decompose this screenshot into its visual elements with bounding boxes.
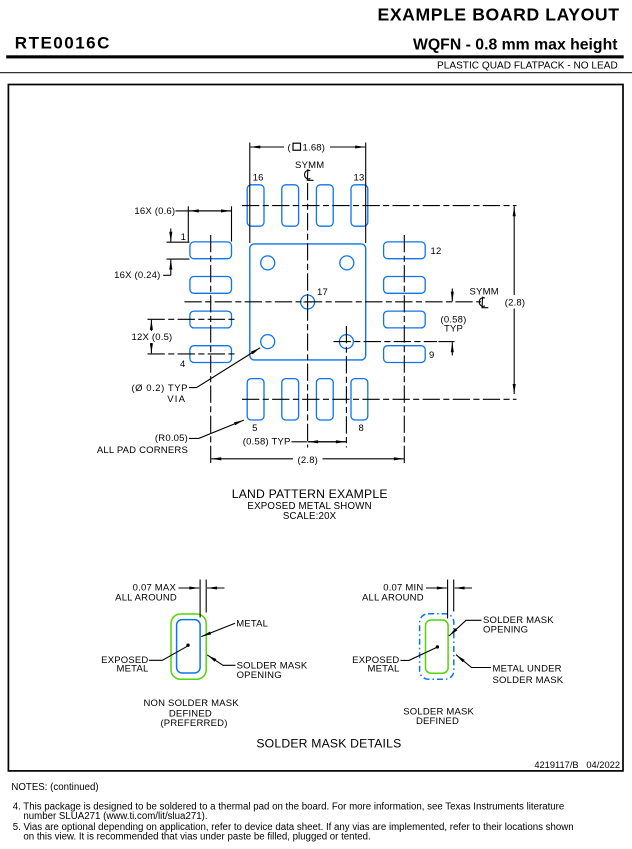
- vertical symm centerline: [307, 183, 309, 448]
- svg-text:METAL: METAL: [117, 663, 149, 674]
- via leader: [189, 348, 260, 388]
- NSMD EXPOSED METAL leader: [149, 646, 187, 660]
- via top-right: [340, 256, 354, 270]
- dim 16X (0.6) leader: [176, 210, 189, 212]
- dim 0.58 bottom arrows: [308, 441, 346, 443]
- svg-text:4219117/B 04/2022: 4219117/B 04/2022: [534, 760, 620, 770]
- dim (2.8) right lower segment: [513, 309, 515, 395]
- SMD METAL UNDER leader: [456, 655, 491, 668]
- via top-left: [261, 256, 275, 270]
- dim 0.6 extension right: [231, 206, 233, 241]
- pad 1: [190, 242, 232, 259]
- dim 1.68 extension line left: [249, 143, 251, 244]
- dim 0.24 arrow down: [170, 229, 172, 242]
- pad 11: [384, 277, 426, 294]
- svg-text:(Ø 0.2) TYP: (Ø 0.2) TYP: [131, 383, 188, 394]
- svg-text:(PREFERRED): (PREFERRED): [160, 718, 227, 729]
- svg-text:OPENING: OPENING: [237, 670, 282, 681]
- NSMD exposed metal dot: [186, 644, 189, 647]
- pad 7: [316, 379, 333, 420]
- svg-text:1.68): 1.68): [303, 143, 326, 154]
- svg-text:12X (0.5): 12X (0.5): [132, 332, 173, 343]
- svg-text:METAL: METAL: [236, 618, 268, 629]
- dim 1.68 line right segment: [330, 146, 365, 148]
- dim (0.58) right arrow down: [451, 289, 453, 302]
- SMD exposed metal dot: [436, 645, 439, 648]
- svg-text:METAL: METAL: [368, 664, 400, 675]
- dim (2.8) right upper segment: [513, 206, 515, 295]
- dim 0.24 tick bottom: [167, 258, 190, 260]
- centerline symbol top: [305, 169, 314, 180]
- dim 1.68 line left segment: [250, 146, 284, 148]
- via 17 cross marker: [303, 298, 312, 307]
- svg-text:5: 5: [252, 423, 257, 434]
- svg-text:DEFINED: DEFINED: [416, 716, 459, 727]
- dim (0.58) right arrow up: [451, 342, 453, 355]
- pad 5: [247, 379, 264, 420]
- svg-text:EXAMPLE BOARD LAYOUT: EXAMPLE BOARD LAYOUT: [378, 4, 620, 24]
- centerline symbol right: [479, 297, 488, 308]
- dim 12X (0.5) arrow down: [150, 343, 152, 353]
- svg-text:(R0.05): (R0.05): [155, 433, 188, 444]
- bottom pad row centerline: [242, 398, 517, 400]
- right pad column centerline: [403, 235, 405, 466]
- via row tick at dim arrow: [439, 341, 455, 343]
- svg-text:SYMM: SYMM: [295, 160, 324, 171]
- svg-text:OPENING: OPENING: [483, 624, 528, 635]
- pad 4 centerline: [148, 353, 238, 355]
- via 17 center: [301, 295, 315, 309]
- svg-text:on this view. It is recommende: on this view. It is recommended that via…: [23, 831, 370, 842]
- pad 10: [384, 311, 426, 328]
- pad 12: [384, 242, 426, 259]
- dim 0.58 bottom leader: [292, 441, 307, 443]
- horizontal symm centerline: [185, 301, 482, 303]
- svg-text:ALL AROUND: ALL AROUND: [115, 593, 177, 604]
- svg-text:16: 16: [253, 173, 264, 184]
- pad 9: [384, 346, 426, 363]
- svg-text:number SLUA271 (www.ti.com/lit: number SLUA271 (www.ti.com/lit/slua271).: [23, 811, 207, 822]
- pad 8: [351, 379, 368, 420]
- thermal pad (center exposed pad): [250, 244, 366, 360]
- svg-text:16X (0.6): 16X (0.6): [134, 206, 175, 217]
- svg-text:ALL AROUND: ALL AROUND: [362, 593, 424, 604]
- pad 4: [190, 346, 232, 363]
- pad 3 centerline: [148, 318, 238, 320]
- SMD 0.07 extension lines: [447, 580, 449, 619]
- svg-text:4: 4: [180, 359, 185, 370]
- dim 0.6 arrows: [189, 210, 232, 212]
- SMD 0.07 arrows: [426, 587, 447, 589]
- drawing frame border: [8, 85, 623, 771]
- pad 3: [190, 311, 232, 328]
- svg-text:9: 9: [429, 350, 434, 361]
- dim (2.8) bottom line right segment: [323, 458, 404, 460]
- pad 6: [282, 379, 299, 420]
- svg-text:SOLDER MASK: SOLDER MASK: [493, 675, 564, 686]
- svg-text:SYMM: SYMM: [470, 286, 499, 297]
- svg-text:(: (: [288, 143, 292, 154]
- svg-text:NON SOLDER MASK: NON SOLDER MASK: [144, 698, 240, 709]
- svg-text:(2.8): (2.8): [505, 298, 526, 309]
- pad 13: [351, 185, 368, 226]
- svg-text:SOLDER MASK DETAILS: SOLDER MASK DETAILS: [256, 736, 401, 750]
- pad 15: [282, 185, 299, 226]
- SMD green solder mask opening: [426, 620, 449, 673]
- svg-text:NOTES: (continued): NOTES: (continued): [11, 782, 98, 793]
- svg-text:LAND PATTERN EXAMPLE: LAND PATTERN EXAMPLE: [232, 487, 388, 501]
- NSMD green solder mask opening: [171, 614, 206, 679]
- via column centerline: [345, 326, 347, 448]
- via bottom-right: [339, 335, 353, 349]
- dim 0.24 leader: [163, 274, 171, 276]
- dim 0.24 tick top: [167, 241, 190, 243]
- svg-text:(2.8): (2.8): [298, 455, 319, 466]
- thin header rule: [0, 72, 632, 73]
- dim 0.6 extension left: [187, 206, 189, 241]
- svg-text:VIA: VIA: [167, 394, 186, 405]
- svg-text:RTE0016C: RTE0016C: [15, 33, 111, 52]
- via bottom-left: [261, 335, 275, 349]
- NSMD 0.07 arrows: [179, 587, 200, 589]
- svg-text:SCALE:20X: SCALE:20X: [283, 511, 337, 522]
- svg-text:16X (0.24): 16X (0.24): [114, 270, 160, 281]
- pad 14: [316, 185, 333, 226]
- NSMD METAL leader: [201, 623, 235, 636]
- svg-text:METAL UNDER: METAL UNDER: [493, 663, 562, 674]
- dim (2.8) bottom line left segment: [211, 458, 293, 460]
- NSMD 0.07 extension lines: [199, 580, 201, 618]
- svg-text:WQFN - 0.8 mm max height: WQFN - 0.8 mm max height: [413, 37, 618, 54]
- SMD SOLDER MASK OPENING leader: [449, 620, 482, 636]
- top pad row centerline: [242, 205, 517, 207]
- svg-text:13: 13: [354, 173, 365, 184]
- SMD EXPOSED METAL leader: [401, 647, 437, 660]
- dim 0.24 arrow up: [170, 260, 172, 276]
- svg-text:1: 1: [181, 232, 186, 243]
- thick header rule: [6, 55, 624, 58]
- NSMD blue metal pad: [177, 620, 201, 673]
- dim 1.68 extension line right: [365, 143, 367, 244]
- pad 2: [190, 277, 232, 294]
- SMD blue dashed metal under mask: [420, 614, 454, 679]
- svg-text:ALL PAD CORNERS: ALL PAD CORNERS: [97, 445, 188, 456]
- via row centerline: [334, 341, 438, 343]
- dim 12X (0.5) arrow up: [150, 320, 152, 331]
- svg-text:17: 17: [317, 287, 328, 298]
- svg-text:(0.58) TYP: (0.58) TYP: [243, 437, 291, 448]
- pad corner leader: [189, 420, 244, 438]
- left pad column centerline: [210, 235, 212, 466]
- svg-text:PLASTIC QUAD FLATPACK - NO LEA: PLASTIC QUAD FLATPACK - NO LEAD: [437, 61, 618, 72]
- NSMD SOLDER MASK OPENING leader: [207, 655, 235, 665]
- svg-text:8: 8: [359, 423, 364, 434]
- svg-text:TYP: TYP: [444, 324, 463, 335]
- pad 16: [247, 185, 264, 226]
- svg-text:12: 12: [431, 246, 442, 257]
